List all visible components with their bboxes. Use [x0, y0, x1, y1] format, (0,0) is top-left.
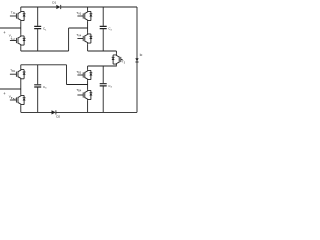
left pair main vertical (cell B)	[20, 65, 22, 113]
TB3 gate lead	[77, 74, 83, 76]
capacitor C3 leg	[37, 65, 39, 113]
svg-text:C4: C4	[108, 84, 112, 89]
capacitor C3 plates	[34, 85, 41, 87]
capacitor C1 plates	[34, 26, 41, 28]
TB1 gate lead	[10, 73, 17, 75]
bottom rail cell B, left segment before D2	[21, 111, 52, 113]
TA4 gate lead	[77, 38, 83, 40]
input wire V1	[0, 27, 21, 29]
TA3 gate lead	[77, 15, 83, 17]
svg-text:+: +	[3, 30, 6, 35]
right pair bottom line (cell A)	[88, 50, 117, 52]
capacitor C2 plates	[100, 26, 107, 28]
capacitor C1 leg	[37, 7, 39, 51]
right pair main vertical (cell A)	[87, 7, 89, 51]
bottom rail cell B, right segment after D2	[56, 111, 137, 113]
right pair main vertical (cell B)	[87, 66, 89, 112]
transistor TA2	[16, 35, 25, 47]
svg-text:TB3: TB3	[76, 70, 81, 75]
vertical connector to right pair midpoint	[68, 28, 70, 51]
connector down to T5	[115, 51, 117, 54]
TA1 gate lead	[10, 15, 17, 17]
top rail (cell A), left segment before D1	[21, 6, 57, 8]
diode D2	[52, 110, 56, 114]
right border wire	[136, 7, 138, 112]
transistor T5 (mirrored)	[112, 54, 121, 66]
capacitor C4 leg	[102, 66, 104, 112]
svg-text:Io: Io	[140, 53, 143, 57]
svg-text:TB4: TB4	[76, 88, 81, 93]
TA2 gate lead	[10, 40, 17, 42]
transistor TA4	[83, 33, 92, 45]
capacitor C2 leg	[102, 7, 104, 51]
transistor TB1	[16, 68, 25, 80]
midpoint wire cell A	[69, 27, 88, 29]
TB4 gate lead	[77, 94, 83, 96]
svg-text:C2: C2	[108, 27, 112, 32]
svg-text:TA1: TA1	[11, 10, 16, 15]
bottom rail cell A	[21, 50, 69, 52]
svg-text:TA3: TA3	[76, 11, 81, 16]
svg-text:+: +	[3, 91, 6, 96]
TB2 gate lead	[10, 99, 17, 101]
cell B connector down to right pair midpoint	[66, 65, 68, 85]
T5 bottom wire to cell B right pair	[88, 64, 117, 67]
top rail (cell A), right segment after D1	[61, 6, 137, 8]
svg-text:TA4: TA4	[76, 33, 81, 38]
input wire V2	[0, 88, 21, 90]
svg-text:T5: T5	[122, 60, 126, 65]
svg-text:D2: D2	[56, 115, 60, 119]
T5 gate lead	[121, 59, 123, 61]
diode D1	[56, 5, 60, 9]
transistor TB2	[16, 94, 25, 106]
output arrow (load current)	[135, 58, 138, 61]
midpoint wire cell B	[67, 84, 88, 86]
cell B top rail	[21, 64, 67, 66]
svg-text:C3: C3	[43, 85, 47, 90]
svg-text:TB1: TB1	[10, 68, 15, 73]
transistor TA3	[83, 10, 92, 22]
transistor TA1	[16, 10, 25, 22]
capacitor C4 plates	[100, 84, 107, 86]
transistor TB4	[83, 89, 92, 101]
svg-text:D1: D1	[52, 1, 56, 5]
transistor TB3	[83, 69, 92, 81]
svg-text:C1: C1	[43, 27, 47, 32]
left pair main vertical (cell A)	[20, 7, 22, 51]
